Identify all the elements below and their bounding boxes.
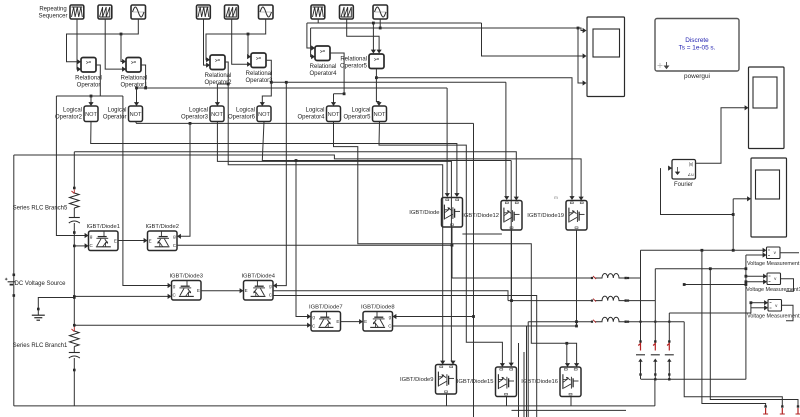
- svg-text:Relational: Relational: [121, 76, 148, 82]
- svg-text:Logical: Logical: [305, 108, 324, 114]
- svg-text:>=: >=: [256, 56, 262, 61]
- svg-text:Relational: Relational: [205, 73, 232, 79]
- svg-text:E: E: [336, 319, 339, 324]
- svg-text:DC Voltage Source: DC Voltage Source: [14, 281, 66, 287]
- svg-text:NOT: NOT: [130, 112, 142, 118]
- svg-text:E: E: [197, 288, 200, 293]
- svg-text:Ts = 1e-05 s.: Ts = 1e-05 s.: [679, 45, 716, 52]
- svg-text:Repeating: Repeating: [39, 7, 66, 13]
- svg-text:NOT: NOT: [328, 112, 340, 118]
- svg-text:Operator2: Operator2: [55, 115, 83, 121]
- svg-text:powergui: powergui: [684, 73, 710, 80]
- svg-text:IGBT/Diode1: IGBT/Diode1: [86, 224, 120, 230]
- svg-text:Operator6: Operator6: [228, 115, 256, 121]
- svg-text:IGBT/Diode3: IGBT/Diode3: [169, 274, 203, 280]
- svg-text:∠u: ∠u: [687, 172, 694, 177]
- svg-text:Logical: Logical: [63, 108, 82, 114]
- svg-text:Discrete: Discrete: [685, 37, 709, 44]
- svg-text:Fourier: Fourier: [674, 182, 693, 188]
- svg-text:>=: >=: [374, 57, 380, 62]
- svg-text:IGBT/Diode19: IGBT/Diode19: [527, 213, 564, 219]
- svg-text:IGBT/Diode7: IGBT/Diode7: [309, 305, 343, 311]
- svg-text:>=: >=: [131, 60, 137, 65]
- svg-text:Operator4: Operator4: [309, 71, 337, 77]
- svg-text:NOT: NOT: [258, 112, 270, 118]
- svg-text:E: E: [114, 239, 117, 244]
- svg-text:Logical: Logical: [236, 108, 255, 114]
- svg-text:m: m: [554, 195, 558, 200]
- svg-text:IGBT/Diode: IGBT/Diode: [409, 210, 439, 216]
- svg-text:E: E: [149, 239, 152, 244]
- svg-text:Voltage Measurement: Voltage Measurement: [747, 261, 800, 267]
- svg-text:Operator4: Operator4: [297, 115, 325, 121]
- svg-text:Logical: Logical: [351, 108, 370, 114]
- svg-text:IGBT/Diode12: IGBT/Diode12: [462, 213, 499, 219]
- svg-text:IGBT/Diode2: IGBT/Diode2: [145, 224, 179, 230]
- svg-text:Operator3: Operator3: [181, 115, 209, 121]
- svg-text:Operator3: Operator3: [245, 78, 273, 84]
- svg-text:Series RLC Branch1: Series RLC Branch1: [13, 343, 68, 349]
- svg-text:Relational: Relational: [75, 76, 102, 82]
- svg-text:Voltage Measurement1: Voltage Measurement1: [746, 287, 800, 293]
- svg-text:IGBT/Diode15: IGBT/Diode15: [457, 379, 494, 385]
- svg-text:NOT: NOT: [211, 112, 223, 118]
- svg-text:|u|: |u|: [689, 162, 694, 167]
- svg-text:Operator: Operator: [77, 83, 101, 89]
- svg-text:IGBT/Diode9: IGBT/Diode9: [400, 377, 434, 383]
- svg-text:Sequencer: Sequencer: [38, 14, 67, 20]
- svg-text:Voltage Measurement2: Voltage Measurement2: [747, 314, 800, 320]
- svg-text:>=: >=: [215, 58, 221, 63]
- svg-text:Logical: Logical: [107, 108, 126, 114]
- svg-text:Logical: Logical: [189, 108, 208, 114]
- svg-text:IGBT/Diode8: IGBT/Diode8: [361, 305, 395, 311]
- svg-text:Series RLC Branch5: Series RLC Branch5: [13, 206, 68, 212]
- svg-text:Relational: Relational: [246, 71, 273, 77]
- svg-text:IGBT/Diode4: IGBT/Diode4: [241, 274, 275, 280]
- svg-text:Relational: Relational: [310, 64, 337, 70]
- svg-text:NOT: NOT: [374, 112, 386, 118]
- svg-text:>=: >=: [86, 60, 92, 65]
- svg-text:Operator5: Operator5: [343, 115, 371, 121]
- svg-text:>=: >=: [320, 49, 326, 54]
- svg-text:NOT: NOT: [85, 112, 97, 118]
- svg-text:E: E: [364, 319, 367, 324]
- svg-text:E: E: [245, 288, 248, 293]
